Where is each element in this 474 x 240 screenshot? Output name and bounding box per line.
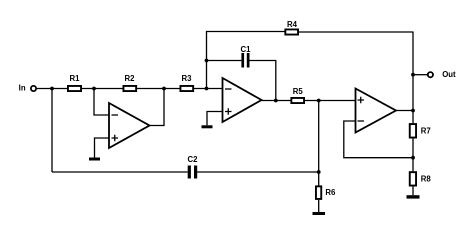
op-amp U1 xyxy=(109,103,150,148)
node K junction xyxy=(411,156,415,160)
svg-text:R8: R8 xyxy=(421,175,432,184)
svg-text:In: In xyxy=(19,84,26,93)
wire R3 to op-amp U2 inverting input xyxy=(194,88,223,90)
capacitor C2 xyxy=(188,166,198,179)
resistor R3 xyxy=(180,86,193,91)
input terminal In xyxy=(31,86,36,91)
label Out xyxy=(442,70,456,79)
wire In to R1 xyxy=(37,88,67,90)
wire node E to C1 xyxy=(207,60,242,62)
output terminal Out xyxy=(428,72,433,77)
wire U2 non-inverting input to ground xyxy=(207,112,223,126)
wire node A down to bottom rail xyxy=(51,89,53,173)
svg-text:C2: C2 xyxy=(188,155,199,164)
resistor R5 xyxy=(291,98,304,103)
label In xyxy=(19,84,26,93)
label R5 xyxy=(293,87,304,96)
wire U3 inverting input feedback to node K xyxy=(344,121,413,158)
resistor R1 xyxy=(68,86,81,91)
wire R7 to node K xyxy=(412,139,414,172)
svg-text:R5: R5 xyxy=(293,87,304,96)
wire C2 to node H xyxy=(197,171,319,173)
node A junction xyxy=(50,87,54,91)
node E junction xyxy=(205,59,209,63)
svg-text:R6: R6 xyxy=(325,188,336,197)
label R3 xyxy=(182,74,193,83)
node D junction xyxy=(205,87,209,91)
ground xyxy=(89,158,100,161)
op-amp U2 xyxy=(223,78,262,122)
svg-text:R1: R1 xyxy=(70,74,81,83)
node J junction xyxy=(411,109,415,113)
ground xyxy=(313,212,326,215)
svg-text:R3: R3 xyxy=(182,74,193,83)
svg-text:C1: C1 xyxy=(241,45,252,54)
resistor R4 xyxy=(285,29,298,34)
node H junction xyxy=(317,170,321,174)
label C2 xyxy=(188,155,199,164)
capacitor C1 xyxy=(241,53,249,68)
label R6 xyxy=(325,188,336,197)
svg-text:R2: R2 xyxy=(125,74,136,83)
wire U1 output up to node C xyxy=(150,89,165,126)
label R2 xyxy=(125,74,136,83)
bottom rail wire to C2 xyxy=(52,171,188,173)
ground xyxy=(407,195,420,198)
wire R5 to op-amp U3 non-inverting input xyxy=(305,100,356,102)
label R8 xyxy=(421,175,432,184)
svg-text:R4: R4 xyxy=(287,20,298,29)
resistor R6 xyxy=(316,172,321,212)
wire U3 output to rail xyxy=(396,110,413,112)
node I junction xyxy=(411,73,415,77)
ground xyxy=(202,125,213,128)
wire node G down to bottom rail xyxy=(318,101,320,173)
resistor R7 xyxy=(410,124,416,138)
node G junction xyxy=(317,99,321,103)
wire R4 to output rail xyxy=(299,31,413,33)
wire R1 to R2 xyxy=(82,88,123,90)
svg-text:R7: R7 xyxy=(421,127,431,136)
wire C1 to node F xyxy=(250,61,276,101)
node C junction xyxy=(162,87,166,91)
wire R2 to R3 xyxy=(137,88,180,90)
op-amp U3 xyxy=(356,89,397,133)
resistor R2 xyxy=(123,86,136,91)
wire node D up to top feedback rail xyxy=(207,32,285,89)
wire to Out terminal xyxy=(413,74,428,76)
label R1 xyxy=(70,74,81,83)
label R7 xyxy=(421,127,431,136)
wire R8 to ground xyxy=(412,187,414,196)
wire node B to op-amp U1 inverting input xyxy=(94,89,109,116)
wire U2 output to R5 xyxy=(262,100,291,102)
node F junction xyxy=(274,99,278,103)
resistor R8 xyxy=(410,172,416,185)
output rail xyxy=(412,32,414,124)
label R4 xyxy=(287,20,298,29)
svg-text:Out: Out xyxy=(442,70,456,79)
node B junction xyxy=(92,87,96,91)
wire U1 non-inverting input to ground xyxy=(95,138,110,158)
label C1 xyxy=(241,45,252,54)
